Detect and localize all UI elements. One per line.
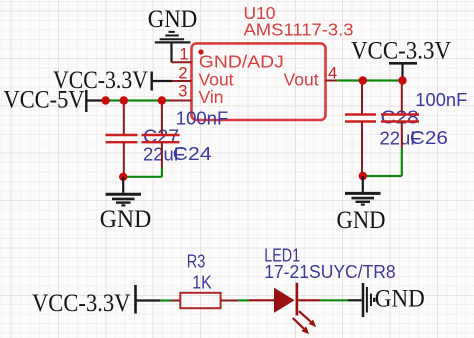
wire right bottom to ground bbox=[362, 176, 364, 193]
svg-text:2: 2 bbox=[178, 65, 187, 83]
svg-text:100nF: 100nF bbox=[415, 90, 467, 110]
svg-text:1K: 1K bbox=[192, 273, 211, 293]
svg-text:GND/ADJ: GND/ADJ bbox=[199, 51, 284, 71]
junction dot left rail 1 bbox=[101, 96, 109, 104]
svg-text:Vout: Vout bbox=[284, 69, 319, 89]
ground symbol (left) bbox=[100, 194, 152, 233]
svg-text:1: 1 bbox=[179, 45, 188, 63]
svg-text:C26: C26 bbox=[410, 128, 448, 148]
wire VCC-5V rail black segment bbox=[86, 99, 105, 101]
svg-text:4: 4 bbox=[328, 65, 337, 83]
wire bottom green segment 1 bbox=[160, 299, 172, 301]
wire pin 4 to VCC rail green bbox=[337, 79, 402, 81]
svg-text:VCC-5V: VCC-5V bbox=[4, 85, 86, 114]
power port VCC-3.3V (right) bbox=[351, 36, 452, 81]
wire bottom green segment 2 bbox=[238, 299, 249, 301]
svg-text:VCC-3.3V: VCC-3.3V bbox=[32, 288, 131, 317]
wire bottom green segment 3 bbox=[320, 299, 348, 301]
pin 4 Vout bbox=[284, 65, 338, 90]
svg-text:3: 3 bbox=[178, 83, 187, 101]
capacitor C26 bbox=[363, 81, 419, 177]
svg-text:GND: GND bbox=[337, 205, 386, 234]
svg-text:C24: C24 bbox=[173, 144, 212, 164]
LED1 bbox=[249, 283, 320, 316]
svg-text:17-21SUYC/TR8: 17-21SUYC/TR8 bbox=[264, 262, 396, 282]
regulator U10 box bbox=[192, 43, 326, 120]
wire left bottom to ground bbox=[122, 177, 124, 193]
wire GND to pin 1 bbox=[170, 43, 172, 62]
wire bottom black segment 1 bbox=[136, 299, 161, 301]
svg-text:GND: GND bbox=[100, 204, 152, 233]
wire VCC-3.3V to pin 2 bbox=[152, 80, 173, 82]
pin 2 Vout bbox=[172, 65, 233, 90]
junction dot right bottom bbox=[359, 172, 367, 180]
svg-text:GND: GND bbox=[375, 284, 425, 313]
power port GND bar style (bottom right) bbox=[363, 283, 425, 317]
wire VCC-5V rail green segment bbox=[106, 99, 169, 101]
capacitor C28 bbox=[345, 81, 376, 177]
LED1 arrow 2 bbox=[293, 318, 309, 334]
resistor R3 bbox=[172, 293, 239, 308]
svg-text:VCC-3.3V: VCC-3.3V bbox=[351, 36, 452, 65]
power port GND (top) bbox=[148, 4, 198, 42]
pin 3 Vin bbox=[169, 83, 223, 108]
junction dot left rail 2 bbox=[120, 96, 128, 104]
svg-text:Vin: Vin bbox=[199, 87, 224, 107]
net label VCC-5V bbox=[4, 85, 87, 114]
junction dot right rail 2 bbox=[398, 76, 406, 84]
capacitor C27 bbox=[106, 101, 138, 177]
svg-text:C28: C28 bbox=[381, 108, 419, 128]
junction dot left rail 3 bbox=[158, 96, 166, 104]
svg-text:GND: GND bbox=[148, 4, 198, 33]
capacitor C24 bbox=[123, 101, 179, 177]
pin 1 GND/ADJ bbox=[172, 45, 284, 71]
junction dot right rail 1 bbox=[359, 76, 367, 84]
LED1 arrow 1 bbox=[299, 311, 316, 327]
ground symbol (right) bbox=[337, 193, 386, 234]
wire bottom black segment 2 bbox=[348, 299, 362, 301]
svg-text:R3: R3 bbox=[187, 252, 206, 272]
U10 inner dot bbox=[198, 49, 203, 54]
net label VCC-3.3V (left) bbox=[53, 65, 152, 94]
svg-text:100nF: 100nF bbox=[176, 109, 229, 129]
junction dot left bottom bbox=[119, 173, 127, 181]
svg-text:AMS1117-3.3: AMS1117-3.3 bbox=[244, 20, 354, 40]
net label VCC-3.3V (bottom) bbox=[32, 285, 136, 317]
